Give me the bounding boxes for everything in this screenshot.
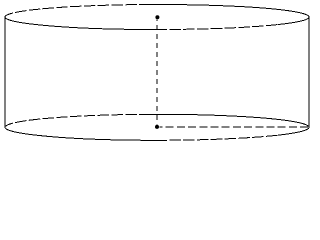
left side wall line — [4, 17, 6, 127]
dashed radius line from bottom center to right end — [159, 126, 308, 128]
bottom ellipse solid arc: left end around front to x=167 — [5, 123, 167, 140]
top ellipse dashed back arc x=13..148 — [13, 5, 148, 13]
top ellipse dashed front arc x=167..278 — [167, 25, 278, 30]
right side wall line — [308, 17, 310, 127]
top ellipse solid arc: left end around front to x=167 — [5, 13, 167, 29]
top center dot — [155, 15, 159, 19]
bottom ellipse dashed front arc x=167..278 — [167, 135, 278, 140]
bottom ellipse dashed back arc x=13..150 — [13, 114, 150, 123]
bottom center dot — [155, 125, 159, 129]
bottom ellipse solid arc: x=150 over top through right end to front x=278 — [150, 114, 309, 135]
dashed axis line between centers — [156, 19, 158, 124]
top ellipse solid arc: x=148 over top through right end to front x=278 — [148, 4, 309, 24]
